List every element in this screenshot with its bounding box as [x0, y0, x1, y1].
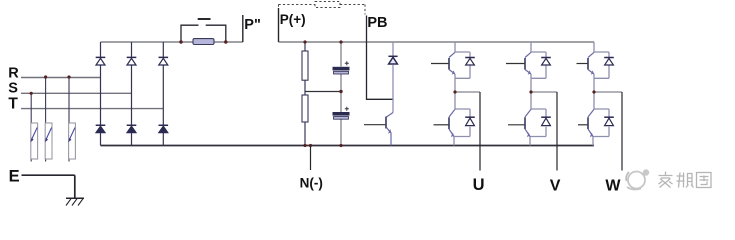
svg-text:T: T — [8, 96, 18, 113]
svg-text:P(+): P(+) — [280, 12, 306, 27]
svg-text:P": P" — [244, 17, 261, 33]
svg-text:V: V — [550, 178, 561, 195]
svg-text:S: S — [8, 80, 18, 96]
svg-text:E: E — [9, 167, 20, 185]
svg-text:N(-): N(-) — [300, 175, 323, 190]
svg-text:PB: PB — [367, 15, 387, 31]
svg-text:R: R — [8, 66, 19, 82]
svg-text:W: W — [605, 178, 621, 195]
svg-text:U: U — [473, 176, 485, 194]
